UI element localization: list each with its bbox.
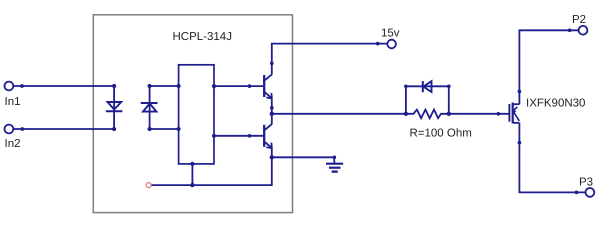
wire Q2 emitter down to common node [271, 148, 273, 157]
svg-text:IXFK90N30: IXFK90N30 [526, 98, 585, 110]
wire In2 to LED cathode [13, 128, 114, 130]
junction dot block common stub [190, 183, 194, 187]
wire Q2 collector up to output node [271, 114, 273, 124]
LED D1 symbol [106, 102, 123, 111]
unconnected pin marker (red) [146, 183, 151, 188]
wire block to Q2 base [214, 135, 264, 137]
wire common node down and left to unconnected pin [151, 157, 271, 185]
terminal In1 [4, 82, 13, 91]
pin dot Q1 collector [270, 61, 274, 65]
pin dot M1 source [518, 141, 522, 145]
node dot D2 at detector block bottom [177, 127, 181, 131]
pin dot Q1 base [248, 84, 252, 88]
terminal 15v [387, 40, 396, 49]
svg-text:P2: P2 [572, 14, 586, 26]
wire resistor right node up [448, 86, 450, 114]
junction dot output node [270, 112, 274, 116]
junction dot resistor left node [404, 112, 408, 116]
pin dot Q1 emitter [270, 106, 274, 110]
wire Q1 emitter down to output node [271, 98, 273, 114]
terminal P3 [586, 188, 595, 197]
pin dot Q2 base [248, 134, 252, 138]
wire output node to gate resistor [272, 113, 406, 115]
anti-parallel diode D3 (cathode left) [423, 81, 432, 92]
wire M1 source down to P3 [519, 123, 585, 193]
wire common node to ground [272, 156, 335, 158]
protection diode D2 top stub wire [150, 85, 179, 87]
resistor R1 zigzag [406, 110, 449, 119]
junction dot resistor right node [447, 112, 451, 116]
corner dot node In2/bottom of LED [112, 127, 116, 131]
wire block to Q1 base [214, 85, 264, 87]
pin dot In1 [20, 84, 24, 88]
corner dot diode branch right [447, 84, 451, 88]
transistor Q2 (lower NPN) [264, 124, 273, 148]
ground [326, 157, 343, 171]
pin dot 15v terminal [376, 42, 380, 46]
protection diode D2 vertical branch wire [149, 86, 151, 129]
svg-text:P3: P3 [579, 177, 593, 189]
pin dot block right output 1 [212, 84, 216, 88]
svg-text:15v: 15v [381, 28, 400, 40]
pin dot In2 [20, 127, 24, 131]
node dot D2 at detector block top [177, 84, 181, 88]
pin dot M1 drain [518, 90, 522, 94]
svg-text:In1: In1 [5, 96, 21, 108]
node dot D2 bottom-left [148, 127, 152, 131]
protection diode D2 bottom stub wire [150, 128, 179, 130]
pin dot P3 terminal [575, 191, 579, 195]
protection diode D2 symbol (anode down, cathode up) [141, 103, 158, 112]
wire block bottom to common rail [191, 164, 193, 185]
junction dot common node [270, 155, 274, 159]
wire diode branch top segment [406, 85, 449, 87]
terminal In2 [4, 125, 13, 134]
optocoupler package box U1 outline [93, 15, 292, 213]
transistor Q1 (upper NPN) [264, 74, 273, 98]
svg-text:HCPL-314J: HCPL-314J [173, 31, 232, 43]
wire In1 to LED anode [13, 85, 114, 87]
svg-text:In2: In2 [5, 138, 21, 150]
pin dot P2 terminal [568, 28, 572, 32]
wire Q1 collector up to 15v rail [272, 44, 388, 75]
node dot D2 top-left [148, 84, 152, 88]
MOSFET M1 IXFK90N30 [509, 103, 519, 124]
svg-text:R=100 Ohm: R=100 Ohm [410, 128, 472, 140]
terminal P2 [579, 26, 588, 35]
pin dot block bottom common [190, 162, 194, 166]
wire M1 drain up to P2 [519, 30, 578, 104]
pin dot block right output 2 [212, 134, 216, 138]
detector IC block [179, 65, 214, 164]
pin dot at ground stub [332, 155, 336, 159]
corner dot diode branch left [404, 84, 408, 88]
wire resistor to MOSFET gate [449, 113, 509, 115]
pin dot M1 gate [496, 112, 500, 116]
wire resistor left node up [405, 86, 407, 114]
corner dot node In1/top of LED [112, 84, 116, 88]
LED D1 vertical branch wire [113, 86, 115, 129]
